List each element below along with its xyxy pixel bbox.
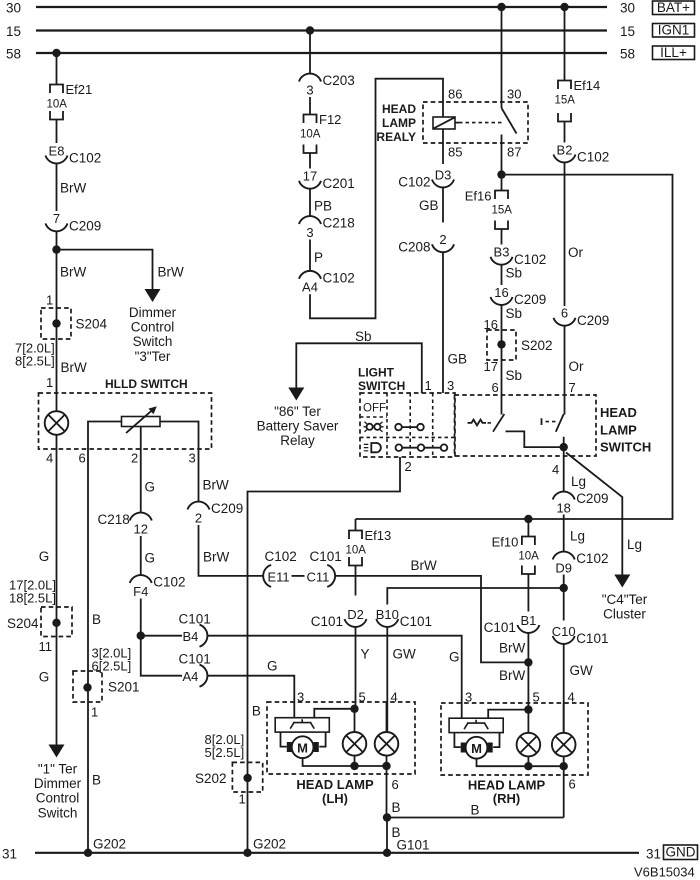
wire Ef13 to D2 (355, 566, 357, 596)
svg-text:B: B (471, 803, 480, 818)
icon parking lamps (364, 422, 384, 432)
wire Ef16 to B3 (501, 229, 503, 245)
svg-text:17: 17 (303, 169, 317, 184)
wire GW B10 to head lamp LH pin4 (386, 627, 388, 733)
svg-text:17: 17 (484, 359, 498, 374)
svg-text:15: 15 (620, 24, 635, 39)
connector C209 pin 6 (554, 306, 610, 328)
svg-text:12: 12 (134, 521, 148, 536)
wire A4 riser to relay pin 86 (310, 79, 443, 319)
wire F12 to C201 (309, 153, 311, 169)
svg-text:G: G (449, 650, 460, 665)
terminal box ILL+ (653, 45, 695, 60)
low beam bulb LH (343, 732, 367, 756)
svg-text:C209: C209 (211, 501, 243, 516)
svg-text:C101: C101 (179, 612, 211, 627)
wire B LH pin6 down (386, 766, 388, 818)
svg-text:10A: 10A (47, 99, 68, 111)
svg-text:8[2.5L]: 8[2.5L] (15, 354, 55, 369)
wire lamp to pin 4 (56, 435, 58, 449)
connector C102 pin A4 (299, 270, 355, 294)
svg-text:Lg: Lg (571, 474, 586, 489)
svg-text:G101: G101 (397, 838, 430, 853)
splice S202 box (487, 330, 516, 360)
svg-text:S204: S204 (76, 317, 108, 332)
svg-text:C203: C203 (323, 73, 355, 88)
svg-text:2: 2 (131, 451, 138, 466)
svg-text:18: 18 (556, 500, 570, 515)
wire BrW branch to dimmer control switch (57, 250, 153, 291)
connector C101 pin B4 (179, 612, 211, 647)
splice S202 box 2 (232, 762, 262, 792)
wire B HLLD pin6 down to S201 (87, 449, 89, 853)
wire light switch pin2 to ground G202 (248, 457, 401, 853)
svg-text:PB: PB (314, 199, 332, 214)
svg-text:IGN1: IGN1 (658, 23, 690, 38)
junction LH lamp1 bottom (350, 762, 358, 770)
svg-text:1: 1 (425, 378, 432, 393)
svg-text:7: 7 (53, 211, 60, 226)
wire rheostat left lead to pin 6 (88, 422, 122, 450)
wire bus58 to fuse Ef21 (56, 53, 58, 85)
splice S204 junction (52, 319, 60, 327)
svg-text:C101: C101 (310, 549, 342, 564)
connector pair C102 E11 / C101 C11 (263, 549, 342, 587)
wire G A4 to head lamp LH pin3 (207, 676, 294, 718)
svg-text:F12: F12 (319, 112, 341, 127)
svg-text:REALY: REALY (376, 130, 416, 144)
wire LH pin4 to lamp2 (386, 702, 388, 732)
wire Sb C209-16 to S202 (501, 305, 503, 415)
svg-text:C102: C102 (153, 575, 185, 590)
label 17[2.0L] 18[2.5L] (9, 578, 56, 606)
wire B to G101 (386, 818, 388, 853)
svg-text:A4: A4 (302, 280, 318, 295)
svg-text:C102: C102 (323, 270, 355, 285)
wire LH pin5 step to housing (314, 709, 354, 718)
junction B ground bus (383, 813, 391, 821)
arrow to battery saver relay (288, 388, 304, 401)
svg-text:30: 30 (620, 1, 635, 16)
svg-text:6: 6 (392, 777, 399, 792)
svg-text:86: 86 (448, 87, 462, 102)
svg-text:D2: D2 (347, 607, 364, 622)
splice S204 box (41, 308, 71, 339)
svg-text:C10: C10 (552, 624, 576, 639)
svg-text:GW: GW (393, 647, 417, 662)
connector C218 pin 12 (97, 512, 151, 536)
svg-text:C218: C218 (323, 216, 355, 231)
svg-text:87: 87 (507, 145, 521, 160)
terminal box GND (664, 845, 698, 860)
svg-text:15A: 15A (492, 205, 513, 217)
splice S202 junction 2 (243, 774, 251, 782)
wire P C218 to A4 (309, 240, 311, 272)
fuse F12 10A (300, 112, 341, 153)
svg-text:BrW: BrW (203, 478, 230, 493)
label 7[2.0L] 8[2.5L] (15, 341, 55, 369)
svg-text:S201: S201 (108, 680, 140, 695)
svg-text:C209: C209 (69, 218, 101, 233)
svg-text:ILL+: ILL+ (660, 45, 687, 60)
svg-text:1: 1 (239, 792, 246, 807)
wire G HLLD pin2 down (140, 449, 142, 513)
connector C102 pin D9 (553, 551, 609, 575)
svg-text:B4: B4 (183, 629, 199, 644)
svg-text:OFF: OFF (363, 403, 386, 415)
connector C203 pin 3 (299, 73, 355, 97)
connector C209 pin 7 (46, 211, 102, 233)
relay coil (433, 117, 504, 129)
connector C102 pin D3 (398, 167, 454, 189)
connector C101 pin D2 (311, 607, 367, 629)
svg-text:C209: C209 (576, 491, 608, 506)
svg-text:(RH): (RH) (493, 791, 520, 806)
fuse Ef21 10A (47, 82, 93, 120)
connector C101 pin B1 (484, 613, 540, 635)
svg-text:Y: Y (361, 647, 370, 662)
connector C209 pin 2 (188, 501, 244, 525)
connector C102 pin B2 (554, 142, 610, 164)
connector C218 pin 3 (299, 216, 355, 240)
svg-text:D9: D9 (555, 560, 572, 575)
light switch icon cell dividers (360, 393, 455, 457)
svg-text:C11: C11 (307, 569, 330, 584)
head lamp switch box (455, 395, 597, 456)
svg-text:Battery Saver: Battery Saver (257, 419, 339, 434)
svg-text:BAT+: BAT+ (657, 0, 690, 15)
svg-text:G: G (39, 670, 50, 685)
connector C209 pin 18 (553, 491, 609, 515)
wire BAT+ to relay pin 30 (501, 7, 503, 108)
wire RH lamp2 bottom (563, 756, 565, 766)
wire motor RH to lamp commons (477, 759, 564, 767)
bus 58 (ILL+) (36, 52, 607, 54)
fuse Ef10 10A (492, 535, 540, 575)
svg-text:Ef14: Ef14 (574, 78, 601, 93)
wire 87 junction to Ef16 (501, 175, 503, 191)
svg-text:E8: E8 (49, 143, 65, 158)
svg-text:G: G (39, 549, 50, 564)
relay box head lamp relay (423, 102, 528, 143)
HLLD switch box (39, 393, 212, 449)
svg-text:Lg: Lg (570, 529, 585, 544)
svg-text:GB: GB (419, 198, 439, 213)
svg-text:Or: Or (568, 245, 584, 260)
illumination lamp in HLLD switch (45, 411, 69, 435)
svg-text:C102: C102 (576, 551, 608, 566)
wire C203 to fuse F12 (309, 97, 311, 115)
svg-text:Dimmer: Dimmer (34, 776, 82, 791)
wire branch down to connector A4 (141, 636, 182, 676)
svg-text:Control: Control (36, 791, 80, 806)
svg-text:Sb: Sb (355, 329, 372, 344)
wire Sb B3 to C209-16 (501, 264, 503, 285)
svg-text:GB: GB (448, 352, 468, 367)
wire B across to RH (387, 817, 564, 819)
junction dimmer branch (52, 245, 60, 253)
svg-text:GND: GND (666, 845, 696, 860)
wire LH lamp1 bottom (354, 756, 356, 766)
svg-text:Ef13: Ef13 (365, 528, 392, 543)
splice S201 box (73, 671, 102, 702)
wire BrW C209-2 to E11 (199, 525, 264, 576)
ground junction G202 2 (243, 849, 251, 857)
junction LH pin5 top (350, 705, 358, 713)
wire BrW HLLD pin3 down (198, 449, 200, 502)
svg-text:2: 2 (405, 459, 412, 474)
svg-text:G: G (267, 659, 278, 674)
ground junction G101 (383, 849, 391, 857)
svg-text:Sb: Sb (506, 368, 523, 383)
wire BrW junction to head lamp RH pin5 (527, 662, 529, 709)
svg-text:B: B (252, 704, 261, 719)
bus 30 (BAT+) (36, 6, 607, 8)
svg-text:E11: E11 (268, 569, 290, 584)
svg-text:7: 7 (569, 380, 576, 395)
connector C101 pin B10 (376, 607, 432, 629)
wire G HLLD pin4 down (56, 449, 58, 747)
label 3[2.0L] 6[2.5L] (92, 646, 132, 674)
label HEAD LAMP REALY (376, 102, 416, 144)
wire relay coil to pin 85 (442, 129, 444, 164)
svg-text:4: 4 (46, 451, 53, 466)
svg-text:Sb: Sb (506, 266, 523, 281)
wire PB C201 to C218 (309, 188, 311, 216)
splice S201 junction (83, 683, 91, 691)
svg-text:6: 6 (79, 451, 86, 466)
svg-text:C208: C208 (398, 239, 430, 254)
svg-text:S202: S202 (195, 771, 227, 786)
junction RH pin5 top (524, 705, 532, 713)
svg-text:C209: C209 (514, 292, 546, 307)
fuse Ef14 15A (555, 78, 601, 122)
svg-text:B: B (92, 773, 101, 788)
svg-text:Ef10: Ef10 (492, 535, 519, 550)
low beam bulb RH (517, 733, 541, 757)
head lamp RH box (441, 703, 588, 775)
head lamp switch contact pin6 (468, 414, 505, 432)
junction relay 87 output (497, 170, 505, 178)
junction RH lamp1 bottom (524, 762, 532, 770)
label HEAD LAMP SWITCH (600, 405, 651, 454)
label LIGHT SWITCH (358, 366, 405, 394)
svg-text:HLLD SWITCH: HLLD SWITCH (105, 377, 188, 391)
svg-text:"3"Ter: "3"Ter (135, 349, 171, 364)
connector C102 pin E8 (46, 143, 102, 165)
svg-text:18[2.5L]: 18[2.5L] (9, 591, 56, 606)
junction on bus 30 for relay (497, 3, 505, 11)
svg-text:SWITCH: SWITCH (600, 439, 651, 454)
svg-text:Switch: Switch (38, 805, 78, 820)
svg-text:(LH): (LH) (322, 791, 348, 806)
svg-text:"86" Ter: "86" Ter (274, 404, 321, 419)
svg-text:15A: 15A (555, 95, 576, 107)
svg-text:LAMP: LAMP (600, 422, 637, 437)
svg-text:BrW: BrW (411, 558, 438, 573)
wire Ef14 to B2 (564, 122, 566, 143)
connector C201 pin 17 (299, 169, 355, 191)
junction B4/A4 branch (137, 632, 145, 640)
svg-text:M: M (471, 741, 482, 756)
label HEAD LAMP (LH) (296, 777, 374, 806)
svg-text:BrW: BrW (158, 265, 185, 280)
wire RH pin5 step to housing (488, 710, 528, 719)
splice S202 junction (497, 340, 505, 348)
svg-text:LIGHT: LIGHT (358, 366, 395, 380)
svg-text:C101: C101 (576, 631, 608, 646)
arrow to dimmer control switch (145, 289, 161, 302)
svg-text:G: G (145, 551, 156, 566)
wire RH pin5 to lamp1 (527, 710, 529, 733)
svg-text:C102: C102 (577, 150, 609, 165)
light switch contacts row parking (395, 424, 424, 431)
svg-text:BrW: BrW (61, 360, 88, 375)
wire switch common to output junction (506, 431, 564, 447)
svg-text:D3: D3 (435, 167, 452, 182)
head lamp switch contact pin7 (542, 414, 564, 447)
svg-text:B3: B3 (494, 245, 510, 260)
svg-text:B1: B1 (520, 613, 536, 628)
svg-text:HEAD: HEAD (600, 405, 637, 420)
wire rheostat wiper to pin 2 (140, 427, 142, 450)
svg-text:16: 16 (494, 285, 508, 300)
svg-text:C218: C218 (97, 512, 129, 527)
svg-text:P: P (314, 250, 323, 265)
svg-text:Dimmer: Dimmer (129, 305, 177, 320)
svg-text:C101: C101 (484, 620, 516, 635)
head lamp LH leveling actuator housing (275, 718, 329, 752)
head lamp RH leveling motor M (466, 737, 488, 759)
arrow to 1 ter dimmer control switch (49, 745, 65, 758)
wire GB C208 to light switch pin 3 (442, 252, 444, 393)
svg-text:10A: 10A (346, 545, 367, 557)
svg-text:"1" Ter: "1" Ter (38, 762, 78, 777)
ground junction G202 (84, 849, 92, 857)
wire Y D2 to head lamp LH pin5 (355, 627, 357, 709)
terminal box IGN1 (653, 23, 695, 38)
connector C101 pin C10 (552, 624, 609, 646)
wire RH pin4 to lamp2 (563, 703, 565, 733)
connector C102 pin B3 (491, 245, 547, 267)
svg-text:C101: C101 (311, 614, 343, 629)
svg-text:11: 11 (39, 639, 53, 654)
wire Lg switch output down (563, 447, 565, 491)
svg-text:58: 58 (6, 47, 21, 62)
svg-text:6: 6 (569, 777, 576, 792)
head lamp RH leveling actuator housing (449, 718, 503, 752)
svg-text:Cluster: Cluster (603, 607, 646, 622)
svg-text:Sb: Sb (506, 306, 523, 321)
light switch box (360, 393, 455, 457)
wire C209-7 to junction (56, 231, 58, 250)
wire Ef10 to B1 (527, 574, 529, 612)
svg-text:3: 3 (306, 225, 313, 240)
svg-text:BrW: BrW (499, 640, 526, 655)
relay switch blade (502, 108, 517, 134)
wire BrW B1 to junction (527, 633, 529, 663)
svg-text:1: 1 (46, 375, 53, 390)
svg-text:3: 3 (189, 451, 196, 466)
wire LH lamp2 bottom (386, 756, 388, 766)
wire rail to fuse Ef13 (355, 519, 357, 531)
svg-text:31: 31 (646, 847, 661, 862)
svg-text:BrW: BrW (499, 668, 526, 683)
wire Or C209-6 to head lamp switch pin 7 (564, 325, 566, 414)
wire motor LH to lamp commons (303, 758, 387, 766)
svg-text:BrW: BrW (60, 181, 87, 196)
svg-text:BrW: BrW (60, 265, 87, 280)
svg-text:Switch: Switch (133, 334, 173, 349)
svg-text:5[2.5L]: 5[2.5L] (205, 745, 245, 760)
svg-text:1: 1 (91, 705, 98, 720)
svg-text:B10: B10 (376, 607, 399, 622)
wire Lg junction to C10 (563, 588, 565, 621)
note 86 ter battery saver relay (257, 404, 339, 448)
wire rheostat right lead to pin 3 (160, 422, 199, 450)
wire relay pin 87 down (501, 135, 503, 175)
svg-text:HEAD LAMP: HEAD LAMP (296, 777, 374, 792)
svg-text:G: G (145, 480, 156, 495)
svg-text:3: 3 (447, 378, 454, 393)
svg-text:15: 15 (6, 24, 21, 39)
wire Lg D9 to junction (563, 575, 565, 589)
label 8[2.0L] 5[2.5L] (205, 732, 245, 760)
label HEAD LAMP (RH) (468, 778, 546, 807)
labels HLLD pins 4 6 2 3 (46, 451, 196, 466)
svg-text:V6B15034: V6B15034 (634, 865, 695, 880)
svg-text:Ef21: Ef21 (66, 82, 93, 97)
svg-text:85: 85 (448, 145, 462, 160)
svg-text:Control: Control (131, 320, 175, 335)
svg-text:Or: Or (569, 359, 585, 374)
svg-text:2: 2 (195, 510, 202, 525)
bus 15 (IGN1) (36, 29, 607, 31)
head lamp LH leveling motor M (292, 736, 314, 758)
connector C101 pin A4 (179, 652, 211, 687)
svg-text:2: 2 (439, 232, 446, 247)
svg-text:30: 30 (507, 87, 521, 102)
junction rail to Ef10 (524, 515, 532, 523)
junction RH lamp2 bottom (560, 762, 568, 770)
junction on bus 58 (52, 49, 60, 57)
svg-text:S202: S202 (521, 338, 553, 353)
junction on bus 15 (306, 26, 314, 34)
svg-text:S204: S204 (7, 616, 39, 631)
junction D9 output (560, 584, 568, 592)
fuse Ef13 10A (346, 528, 392, 566)
svg-text:C102: C102 (69, 151, 101, 166)
connector C102 pin F4 (130, 575, 186, 599)
wire F4 down to branch junction (140, 599, 142, 636)
note dimmer control switch 3 ter (129, 305, 177, 364)
junction LH lamp2 bottom (382, 762, 390, 770)
svg-text:31: 31 (2, 847, 17, 862)
connector C208 pin 2 (398, 232, 454, 254)
svg-text:B2: B2 (557, 142, 573, 157)
wire rail junction to Ef10 (527, 519, 529, 537)
wire Ef21 to connector E8 (56, 120, 58, 144)
high beam bulb RH (552, 733, 576, 757)
svg-text:Lg: Lg (627, 537, 642, 552)
wire LH pin5 to lamp1 (354, 709, 356, 732)
wire BrW E8 to C209-7 (56, 163, 58, 211)
svg-text:1: 1 (46, 293, 53, 308)
wire B RH pin6 down (563, 766, 565, 817)
svg-text:C102: C102 (265, 549, 297, 564)
wire Lg to C4 cluster (566, 453, 622, 547)
svg-text:G202: G202 (93, 837, 126, 852)
